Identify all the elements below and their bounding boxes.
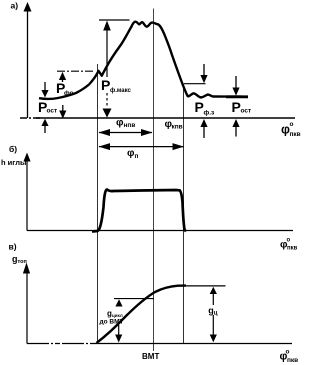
svg-text:б): б) [9,144,17,154]
svg-text:пкв: пкв [290,131,301,138]
svg-text:топ: топ [18,259,27,265]
svg-text:о: о [290,121,294,128]
svg-text:в): в) [9,242,17,252]
svg-text:ВМТ: ВМТ [142,352,159,361]
svg-text:кпв: кпв [172,124,183,131]
svg-text:о: о [287,238,291,244]
svg-text:h иглы: h иглы [1,158,26,167]
svg-text:пкв: пкв [287,357,298,364]
svg-text:ф.з: ф.з [204,110,215,117]
svg-text:п: п [135,153,139,160]
svg-text:фо: фо [64,90,74,97]
svg-text:цикл: цикл [112,313,123,318]
svg-text:Р: Р [195,99,204,115]
svg-text:о: о [286,349,290,356]
svg-text:ост: ост [241,108,252,115]
svg-text:до ВМТ: до ВМТ [100,319,124,326]
svg-text:ост: ост [47,108,58,115]
svg-text:ц: ц [214,311,218,317]
svg-text:Р: Р [232,99,241,115]
svg-text:нпв: нпв [124,122,136,129]
svg-text:пкв: пкв [287,246,298,252]
svg-text:а): а) [11,1,19,11]
svg-text:ф.макс: ф.макс [110,87,132,94]
svg-text:Р: Р [101,77,110,93]
